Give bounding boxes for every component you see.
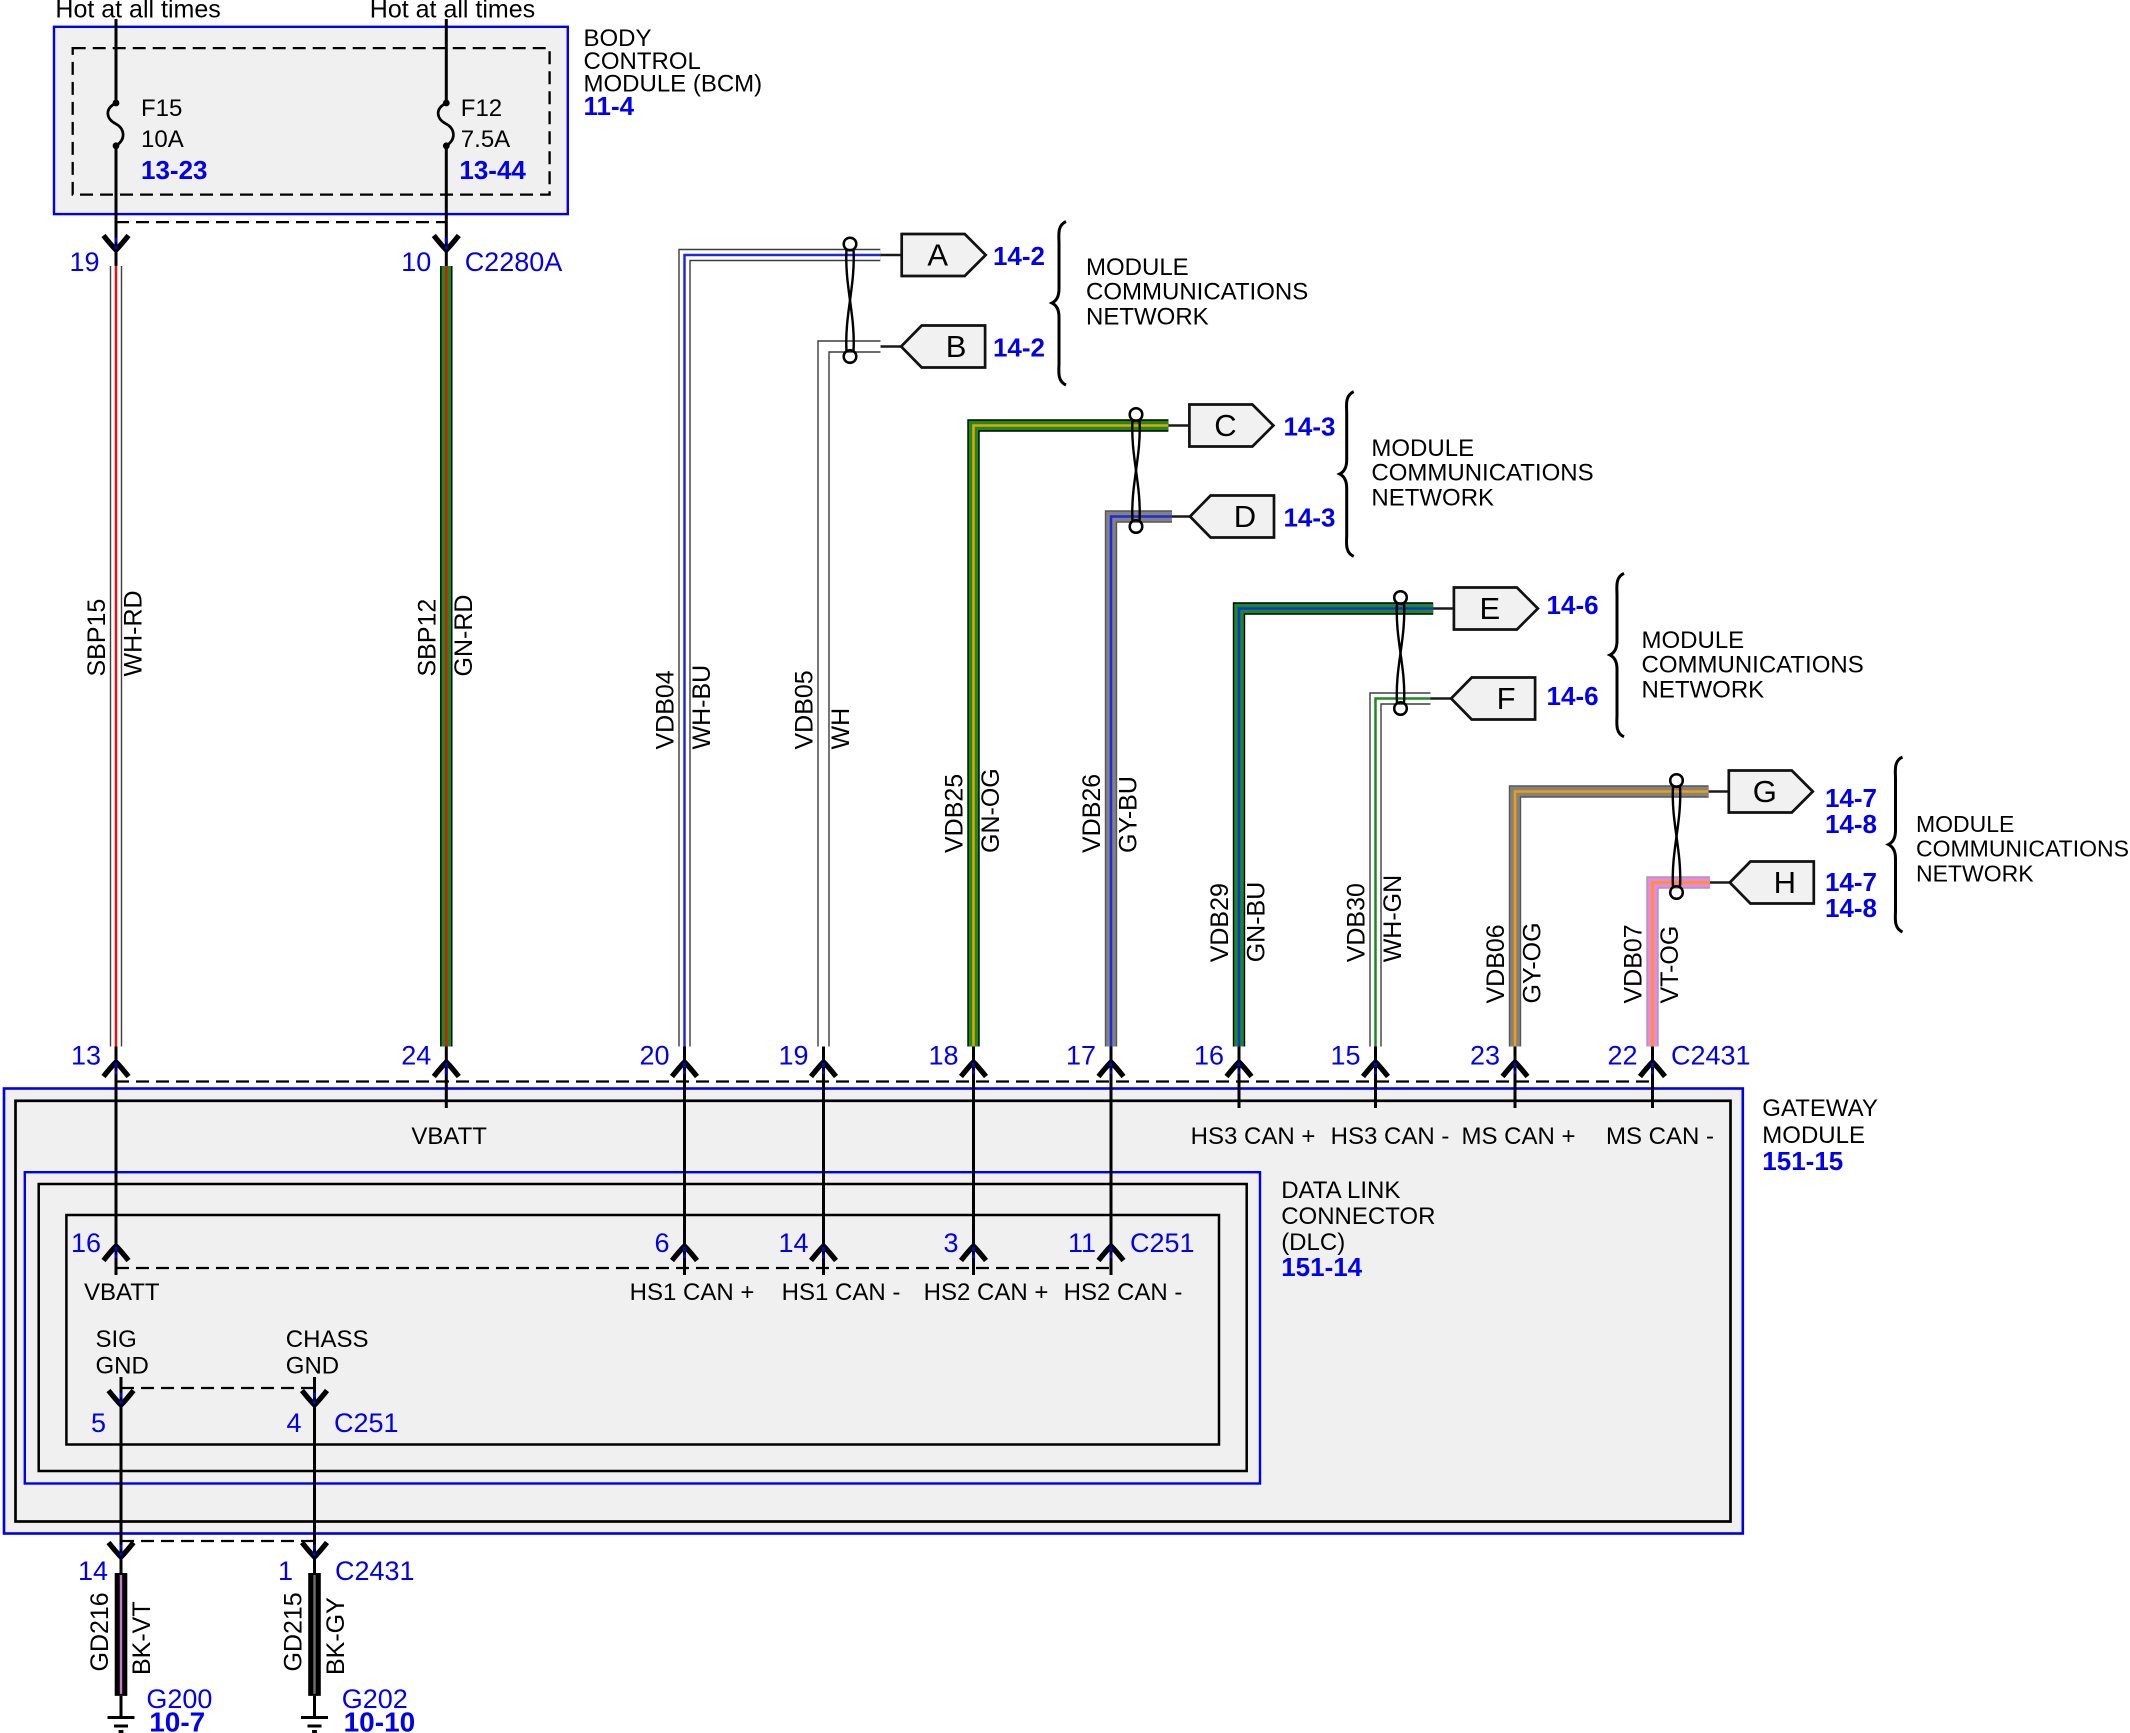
svg-text:14-8: 14-8: [1825, 809, 1877, 839]
svg-text:SBP15: SBP15: [83, 599, 111, 677]
svg-text:BK-GY: BK-GY: [322, 1597, 350, 1675]
svg-text:F15: F15: [141, 95, 182, 122]
svg-text:HS3 CAN -: HS3 CAN -: [1331, 1123, 1450, 1150]
svg-text:VBATT: VBATT: [84, 1279, 160, 1306]
svg-text:18: 18: [928, 1041, 958, 1071]
svg-text:MODULE: MODULE: [1916, 811, 2014, 837]
svg-text:10A: 10A: [141, 126, 184, 153]
svg-text:CHASS: CHASS: [286, 1326, 369, 1353]
svg-text:SBP12: SBP12: [413, 599, 441, 677]
svg-text:C: C: [1214, 408, 1236, 443]
svg-text:HS1 CAN +: HS1 CAN +: [630, 1279, 755, 1306]
svg-text:MODULE: MODULE: [1642, 627, 1745, 654]
svg-text:NETWORK: NETWORK: [1371, 484, 1494, 511]
svg-text:A: A: [927, 238, 948, 273]
svg-text:VDB04: VDB04: [652, 670, 680, 749]
svg-text:GY-BU: GY-BU: [1115, 776, 1143, 853]
svg-text:151-14: 151-14: [1281, 1252, 1362, 1282]
svg-text:DATA LINK: DATA LINK: [1281, 1177, 1400, 1204]
svg-text:5: 5: [91, 1408, 106, 1438]
svg-text:Hot at all times: Hot at all times: [370, 0, 535, 24]
svg-text:3: 3: [943, 1228, 958, 1258]
svg-text:14: 14: [778, 1228, 808, 1258]
svg-text:GD216: GD216: [86, 1592, 114, 1671]
svg-text:13-44: 13-44: [459, 155, 526, 185]
svg-text:HS2 CAN +: HS2 CAN +: [924, 1279, 1049, 1306]
svg-text:D: D: [1234, 499, 1256, 534]
svg-text:MODULE: MODULE: [1371, 435, 1474, 462]
svg-text:VT-OG: VT-OG: [1656, 926, 1684, 1004]
svg-text:14-3: 14-3: [1283, 503, 1335, 533]
svg-text:GN-RD: GN-RD: [450, 595, 478, 677]
svg-text:C251: C251: [1130, 1228, 1195, 1258]
svg-text:6: 6: [654, 1228, 669, 1258]
svg-text:HS1 CAN -: HS1 CAN -: [782, 1279, 901, 1306]
svg-text:Hot at all times: Hot at all times: [55, 0, 220, 24]
svg-text:GY-OG: GY-OG: [1519, 922, 1547, 1003]
svg-text:20: 20: [639, 1041, 669, 1071]
svg-text:13-23: 13-23: [141, 155, 208, 185]
svg-text:10: 10: [401, 247, 431, 277]
svg-text:151-15: 151-15: [1762, 1146, 1843, 1176]
svg-text:C2431: C2431: [335, 1556, 415, 1586]
svg-text:WH-BU: WH-BU: [688, 665, 716, 750]
svg-text:CONNECTOR: CONNECTOR: [1281, 1203, 1435, 1230]
svg-text:WH-RD: WH-RD: [120, 590, 148, 676]
svg-text:VDB07: VDB07: [1620, 924, 1648, 1003]
svg-text:GD215: GD215: [280, 1592, 308, 1671]
svg-text:14: 14: [78, 1556, 108, 1586]
svg-text:GND: GND: [96, 1353, 149, 1380]
svg-text:17: 17: [1066, 1041, 1096, 1071]
svg-text:BK-VT: BK-VT: [128, 1601, 156, 1675]
svg-text:MS CAN +: MS CAN +: [1461, 1123, 1575, 1150]
svg-text:NETWORK: NETWORK: [1086, 303, 1209, 330]
svg-text:H: H: [1774, 865, 1796, 900]
svg-text:SIG: SIG: [96, 1326, 137, 1353]
svg-text:E: E: [1480, 591, 1501, 626]
svg-text:16: 16: [1194, 1041, 1224, 1071]
svg-text:GND: GND: [286, 1353, 339, 1380]
svg-text:F12: F12: [461, 95, 502, 122]
svg-text:G: G: [1753, 774, 1777, 809]
svg-text:19: 19: [69, 247, 99, 277]
svg-text:15: 15: [1330, 1041, 1360, 1071]
svg-text:24: 24: [401, 1041, 431, 1071]
svg-text:HS3 CAN +: HS3 CAN +: [1191, 1123, 1316, 1150]
svg-text:COMMUNICATIONS: COMMUNICATIONS: [1642, 652, 1864, 679]
svg-text:WH: WH: [827, 708, 855, 750]
svg-text:14-6: 14-6: [1547, 590, 1599, 620]
svg-text:COMMUNICATIONS: COMMUNICATIONS: [1086, 279, 1308, 306]
svg-text:11-4: 11-4: [584, 91, 635, 121]
svg-text:VBATT: VBATT: [411, 1123, 487, 1150]
svg-text:14-6: 14-6: [1547, 681, 1599, 711]
svg-text:11: 11: [1068, 1228, 1096, 1258]
svg-text:1: 1: [278, 1556, 293, 1586]
svg-text:COMMUNICATIONS: COMMUNICATIONS: [1371, 460, 1593, 487]
svg-text:C2431: C2431: [1671, 1041, 1751, 1071]
svg-text:VDB30: VDB30: [1343, 883, 1371, 962]
svg-text:7.5A: 7.5A: [461, 126, 510, 153]
svg-text:WH-GN: WH-GN: [1379, 875, 1407, 962]
svg-text:13: 13: [71, 1041, 101, 1071]
svg-text:23: 23: [1470, 1041, 1500, 1071]
svg-text:GN-BU: GN-BU: [1243, 882, 1271, 963]
svg-text:19: 19: [778, 1041, 808, 1071]
svg-text:HS2 CAN -: HS2 CAN -: [1064, 1279, 1183, 1306]
svg-text:C251: C251: [334, 1408, 399, 1438]
svg-text:10-7: 10-7: [149, 1707, 205, 1733]
svg-text:16: 16: [71, 1228, 101, 1258]
svg-text:NETWORK: NETWORK: [1642, 676, 1765, 703]
svg-text:4: 4: [286, 1408, 301, 1438]
svg-text:14-2: 14-2: [993, 241, 1045, 271]
svg-text:B: B: [946, 329, 967, 364]
svg-text:MODULE: MODULE: [1762, 1122, 1865, 1149]
svg-text:14-8: 14-8: [1825, 893, 1877, 923]
svg-text:F: F: [1497, 681, 1516, 716]
svg-text:MS CAN -: MS CAN -: [1606, 1123, 1714, 1150]
svg-text:14-2: 14-2: [993, 333, 1045, 363]
svg-text:COMMUNICATIONS: COMMUNICATIONS: [1916, 836, 2129, 862]
svg-text:10-10: 10-10: [344, 1707, 416, 1733]
svg-text:VDB05: VDB05: [791, 670, 819, 749]
svg-text:VDB26: VDB26: [1078, 774, 1106, 853]
svg-text:14-3: 14-3: [1283, 412, 1335, 442]
svg-text:GN-OG: GN-OG: [977, 768, 1005, 853]
svg-text:NETWORK: NETWORK: [1916, 860, 2034, 886]
svg-text:C2280A: C2280A: [465, 247, 563, 277]
svg-text:22: 22: [1607, 1041, 1637, 1071]
svg-text:VDB29: VDB29: [1206, 883, 1234, 962]
svg-text:VDB06: VDB06: [1482, 924, 1510, 1003]
svg-text:MODULE: MODULE: [1086, 254, 1189, 281]
svg-text:GATEWAY: GATEWAY: [1762, 1095, 1878, 1122]
svg-text:VDB25: VDB25: [941, 774, 969, 853]
